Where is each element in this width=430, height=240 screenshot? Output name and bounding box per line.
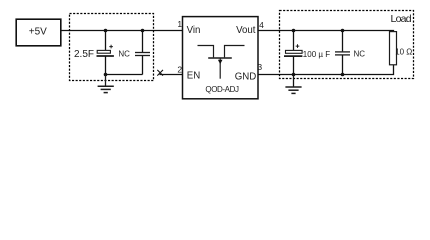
svg-text:QOD-ADJ: QOD-ADJ	[205, 85, 239, 94]
node input cap C1 top	[104, 29, 108, 33]
wire Vout rail	[258, 31, 394, 32]
svg-text:100 µ F: 100 µ F	[303, 50, 330, 59]
capacitor C4 NC top lead	[342, 31, 344, 52]
node ground tap	[104, 73, 108, 77]
node input cap C2 top	[141, 29, 145, 33]
node output cap C4 top	[341, 29, 345, 33]
capacitor C3 100uF top lead	[293, 31, 295, 51]
svg-text:3: 3	[257, 62, 262, 72]
svg-text:2: 2	[177, 65, 182, 75]
ground input	[98, 75, 114, 93]
capacitor C4 NC plates	[335, 52, 350, 55]
capacitor C1 2.5F top lead	[105, 31, 107, 51]
node output cap C3 top	[292, 29, 296, 33]
svg-text:+5V: +5V	[29, 27, 47, 38]
svg-text:NC: NC	[118, 50, 130, 59]
svg-text:1: 1	[177, 19, 182, 29]
wire EN	[160, 74, 183, 76]
capacitor C3 plus sign	[296, 44, 300, 48]
X mark EN open	[157, 70, 163, 76]
svg-text:Vin: Vin	[187, 25, 201, 36]
svg-text:GND: GND	[235, 71, 257, 82]
capacitor C3 100uF plates	[284, 50, 302, 56]
svg-text:EN: EN	[187, 71, 200, 82]
svg-text:Vout: Vout	[236, 25, 256, 36]
svg-text:10 Ω: 10 Ω	[395, 48, 412, 57]
dashed box load	[280, 11, 414, 79]
ground output	[285, 87, 301, 93]
node output cap C3 bottom	[292, 73, 296, 77]
svg-text:2.5F: 2.5F	[74, 49, 94, 60]
capacitor C2 NC plates	[135, 53, 150, 56]
regulator IC U1 box	[183, 17, 259, 99]
capacitor C4 bottom lead	[342, 55, 344, 75]
capacitor C1 2.5F plates	[97, 50, 114, 56]
pass transistor Q1	[198, 46, 245, 79]
capacitor C1 bottom lead	[105, 57, 107, 75]
voltage source box +5V	[16, 19, 61, 46]
wire input cap bottom rail	[106, 74, 143, 76]
capacitor C2 NC top lead	[142, 31, 144, 53]
capacitor C3 bottom lead to ground	[293, 57, 295, 87]
transistor Q1 arrow	[218, 60, 223, 64]
resistor R1 10 ohm	[390, 32, 397, 65]
capacitor C2 bottom lead	[142, 56, 144, 75]
dashed box input capacitors	[70, 14, 154, 81]
svg-text:Load: Load	[391, 13, 412, 25]
svg-text:4: 4	[259, 20, 264, 30]
svg-text:NC: NC	[354, 50, 366, 59]
wire +5V to Vin rail	[61, 30, 183, 32]
node output cap C4 bottom	[341, 73, 345, 77]
capacitor C1 2.5F plus sign	[109, 45, 113, 49]
wire GND pin rail	[258, 65, 394, 75]
